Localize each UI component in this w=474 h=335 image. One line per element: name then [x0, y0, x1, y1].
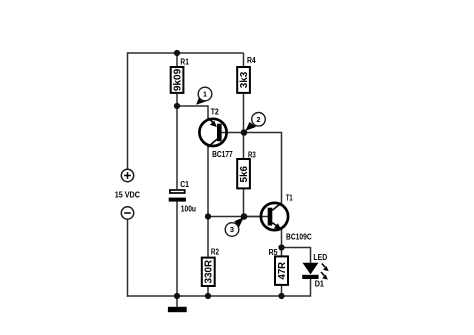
svg-text:BC177: BC177 [212, 150, 233, 159]
svg-text:15 VDC: 15 VDC [115, 191, 140, 200]
svg-text:R4: R4 [247, 56, 256, 65]
svg-text:T1: T1 [286, 194, 293, 203]
svg-text:9k09: 9k09 [173, 68, 184, 91]
svg-text:LED: LED [313, 253, 327, 262]
svg-text:T2: T2 [211, 107, 220, 116]
svg-text:R3: R3 [248, 151, 256, 160]
svg-text:47R: 47R [277, 261, 288, 279]
svg-text:D1: D1 [315, 280, 325, 289]
svg-text:100u: 100u [181, 204, 196, 213]
svg-text:C1: C1 [180, 180, 189, 189]
svg-text:R1: R1 [180, 57, 189, 66]
svg-text:5k6: 5k6 [239, 166, 250, 183]
svg-text:3: 3 [230, 225, 234, 234]
svg-text:1: 1 [203, 90, 207, 99]
svg-text:330R: 330R [204, 259, 215, 283]
svg-text:R2: R2 [211, 248, 220, 257]
svg-text:2: 2 [256, 115, 260, 124]
svg-text:R5: R5 [269, 248, 278, 257]
svg-text:3k3: 3k3 [239, 71, 250, 88]
svg-text:BC109C: BC109C [286, 233, 312, 242]
